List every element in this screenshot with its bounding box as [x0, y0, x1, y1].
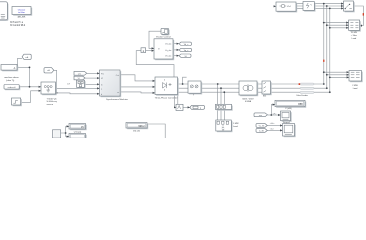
- wire from5 -> scope1: [268, 114, 281, 116]
- svg-text:600V / 25kV: 600V / 25kV: [242, 98, 254, 100]
- scope SC2: [283, 124, 296, 138]
- wire mid -> converter port2: [121, 86, 155, 88]
- svg-text:a=b=c=0: a=b=c=0: [8, 87, 17, 89]
- goto tag G1: [179, 42, 192, 46]
- svg-text:b: b: [101, 94, 102, 96]
- wire T2 drop: [54, 70, 57, 93]
- wire D -> exciter: [146, 50, 155, 52]
- converter block B2: [155, 77, 179, 96]
- svg-text:Vd_abc: Vd_abc: [165, 44, 171, 46]
- wire drop to load1 c: [223, 92, 225, 104]
- wire tagP1 -> machine: [87, 72, 100, 74]
- transformer T: [239, 81, 258, 96]
- wire machine out1 -> converter: [120, 75, 155, 81]
- wire top line C: [296, 7, 344, 9]
- wire 3-phase line C: [178, 91, 330, 93]
- svg-text:g: g: [200, 108, 201, 110]
- wire exciter -> goto3: [173, 55, 179, 57]
- three-phase source S: [41, 82, 57, 95]
- load50 LD50: [349, 20, 361, 32]
- wire T1 branch: [18, 58, 23, 67]
- svg-text:Synchronous Machine: Synchronous Machine: [106, 98, 128, 101]
- measurement block M1: [188, 81, 202, 94]
- goto tag G2: [179, 48, 192, 52]
- svg-text:6 MVA: 6 MVA: [245, 100, 252, 103]
- block powergui page (cut at left edge): [0, 2, 8, 21]
- wire top line A machine2->switch: [296, 3, 344, 5]
- wire top line B: [296, 5, 344, 7]
- wire converter bottom drops to selector: [174, 95, 178, 108]
- svg-text:% Pnom? t.u: % Pnom? t.u: [10, 21, 24, 24]
- svg-text:+ Xfmr: + Xfmr: [351, 34, 357, 37]
- svg-text:wm (pu): wm (pu): [74, 131, 82, 133]
- wire tagP2 -> machine: [85, 77, 99, 79]
- svg-text:50 kW: 50 kW: [351, 32, 357, 34]
- svg-text:wm: wm: [78, 73, 81, 75]
- switch SW: [344, 1, 355, 12]
- wire drop to load1 a: [217, 84, 219, 105]
- wire bus->load50 c: [330, 27, 349, 29]
- from tag P1: [74, 71, 87, 75]
- synchronous machine MA: [100, 70, 122, 97]
- node bus taps load50: [323, 22, 325, 24]
- svg-text:Ia_B1: Ia_B1: [259, 130, 265, 132]
- from tag T2: [44, 68, 54, 73]
- wire bus->load50 a: [324, 22, 349, 24]
- load1 top block L1a: [216, 104, 233, 110]
- wire scope-small -> exciter: [149, 31, 161, 48]
- wire 3-phase line A: [178, 83, 324, 85]
- svg-text:Vq_abc: Vq_abc: [165, 50, 171, 52]
- from tag F7: [256, 129, 267, 133]
- svg-text:wm: wm: [259, 115, 262, 117]
- powergui square S2: [53, 130, 61, 138]
- svg-text:machine demo: machine demo: [4, 77, 19, 79]
- wire bus phase B vertical: [326, 6, 328, 88]
- display DSP3: [126, 123, 148, 130]
- from tag F6: [256, 124, 267, 128]
- svg-text:998.2: 998.2: [138, 125, 145, 128]
- wire from6 -> scope2: [268, 125, 283, 127]
- svg-text:source: source: [47, 103, 54, 106]
- feeder line section pills: [300, 83, 314, 93]
- svg-text:<Va>: <Va>: [270, 122, 275, 125]
- wire machine out2 -> converter port3: [120, 92, 155, 93]
- from tag F5: [254, 113, 267, 117]
- wire exciter -> goto1: [173, 43, 179, 45]
- svg-text:Choose: Choose: [18, 9, 26, 11]
- wire B->S: [19, 86, 41, 88]
- wire display3 out: [147, 124, 165, 138]
- exciter block EX: [154, 39, 174, 60]
- display W: [275, 100, 306, 108]
- svg-text:pm_set: pm_set: [18, 15, 26, 18]
- wire S out2 line -> machine: [56, 92, 100, 95]
- svg-text:1 MW: 1 MW: [233, 123, 238, 125]
- wire load1 mid verticals: [218, 110, 225, 121]
- svg-text:P (kW): P (kW): [285, 108, 292, 110]
- node bus bottoms: [323, 83, 325, 85]
- svg-text:Vq_s: Vq_s: [184, 50, 189, 52]
- svg-text:T 600V ph: T 600V ph: [47, 98, 58, 100]
- svg-text:Vdc (V): Vdc (V): [133, 130, 140, 132]
- red marker on switch drop: [363, 13, 364, 16]
- svg-text:3-km Feeder: 3-km Feeder: [296, 94, 308, 97]
- svg-text:In: In: [101, 84, 103, 86]
- node J2: [29, 86, 31, 88]
- node bus taps load2: [323, 71, 325, 73]
- red marker on bus A: [323, 60, 324, 62]
- machine2 MB: [276, 2, 297, 12]
- wire E -> machine: [85, 83, 100, 85]
- wire machine2 input stub: [274, 5, 276, 7]
- svg-text:Exciter Control: Exciter Control: [156, 36, 171, 39]
- wire bus->load2 b: [327, 74, 349, 76]
- wire from7 -> scope2: [268, 129, 283, 131]
- node drops: [217, 83, 219, 85]
- breaker BRK: [262, 81, 272, 95]
- svg-text:Pm: Pm: [101, 73, 104, 75]
- svg-text:Out: Out: [116, 74, 120, 77]
- display DSP2: [69, 134, 87, 141]
- wire stub above line A: [183, 77, 187, 84]
- svg-text:2 MW: 2 MW: [352, 85, 357, 87]
- goto tag T1: [22, 54, 31, 59]
- wire bus->load2 c: [330, 76, 349, 78]
- wire switch out -> load50: [354, 6, 364, 26]
- wire S out1 -> machine: [56, 87, 100, 89]
- node J1: [29, 67, 31, 69]
- constant block A: [1, 65, 18, 72]
- node display branch: [65, 132, 67, 134]
- svg-text:(slow Tj): (slow Tj): [6, 80, 14, 82]
- svg-text:888: 888: [298, 102, 303, 106]
- svg-text:S 60Hz eq: S 60Hz eq: [47, 101, 58, 103]
- selector block G: [176, 104, 183, 110]
- svg-text:V0_abc: V0_abc: [165, 56, 171, 58]
- red marker on line A: [299, 83, 301, 85]
- from tag P2: [74, 76, 85, 80]
- node stub on line A: [182, 83, 184, 85]
- measurement M2: [303, 2, 316, 12]
- node scope branch: [270, 114, 272, 116]
- wire bus phase C vertical: [329, 8, 331, 92]
- goto tag G3: [179, 54, 191, 58]
- wire C->S: [21, 91, 41, 103]
- wire bus->load50 b: [327, 24, 349, 26]
- display DSP1: [69, 124, 87, 131]
- wire bus phase A vertical: [323, 4, 325, 84]
- svg-text:Va_B1: Va_B1: [259, 125, 266, 127]
- step block C: [12, 98, 22, 106]
- wire branch -> W display: [271, 105, 275, 115]
- svg-text:ta filter: ta filter: [18, 11, 25, 14]
- wire exciter -> goto2: [173, 49, 179, 51]
- svg-text:Three-Phase Converter: Three-Phase Converter: [155, 97, 178, 100]
- scope SC1: [281, 111, 292, 122]
- wire 3-phase line B: [178, 87, 327, 89]
- node bus taps top: [323, 3, 325, 5]
- svg-text:Vd_s: Vd_s: [184, 44, 189, 46]
- wire drop to load1 b: [220, 88, 222, 104]
- wire J1->J2 vertical: [29, 67, 31, 86]
- wire A->J1: [17, 66, 30, 68]
- load1 bottom block L1b: [216, 120, 233, 132]
- wire selector -> goto tag: [183, 106, 190, 108]
- scope-small SB: [161, 28, 170, 35]
- goto tag GT: [190, 105, 205, 109]
- load2 LOAD2: [349, 71, 363, 83]
- gain block D: [141, 48, 146, 53]
- wire bus->load2 a: [324, 71, 349, 73]
- constant E (two-bar): [77, 80, 86, 88]
- node S-line: [56, 92, 58, 94]
- svg-text:% Control 98.2: % Control 98.2: [10, 24, 26, 27]
- constant block B: [4, 85, 20, 91]
- annotation block blue (Change model): [12, 7, 32, 16]
- wire feedback converter-top -> D: [136, 51, 174, 77]
- wire powergui -> displays: [61, 126, 70, 136]
